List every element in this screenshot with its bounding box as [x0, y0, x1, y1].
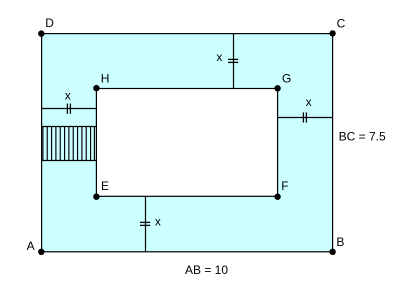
- node G: [274, 85, 280, 91]
- outer rectangle ABCD: [42, 34, 333, 252]
- svg-text:C: C: [337, 16, 346, 30]
- wire right connector: [278, 117, 333, 119]
- wire left connector: [42, 108, 97, 110]
- node H: [93, 85, 99, 91]
- tick marks right: [303, 112, 306, 122]
- svg-text:H: H: [101, 71, 110, 85]
- node A: [38, 249, 44, 255]
- svg-text:x: x: [216, 50, 222, 64]
- svg-text:x: x: [306, 95, 312, 109]
- node B: [329, 249, 335, 255]
- svg-text:AB = 10: AB = 10: [185, 263, 228, 277]
- node C: [329, 30, 335, 36]
- tick marks bottom: [140, 222, 150, 225]
- svg-text:A: A: [27, 239, 35, 253]
- svg-text:BC = 7.5: BC = 7.5: [339, 130, 386, 144]
- node E: [93, 194, 99, 200]
- svg-text:x: x: [155, 215, 161, 229]
- svg-text:x: x: [65, 88, 71, 102]
- svg-text:G: G: [282, 72, 291, 86]
- node D: [38, 30, 44, 36]
- svg-text:E: E: [101, 179, 109, 193]
- tick marks left: [67, 104, 70, 114]
- node F: [274, 194, 280, 200]
- hatched region left: [42, 127, 97, 161]
- wire bottom connector: [145, 196, 147, 252]
- svg-text:B: B: [336, 235, 344, 249]
- tick marks top: [228, 59, 238, 62]
- wire top connector: [233, 34, 235, 89]
- svg-text:F: F: [281, 179, 288, 193]
- inner rectangle EFGH: [96, 89, 277, 197]
- svg-text:D: D: [45, 16, 54, 30]
